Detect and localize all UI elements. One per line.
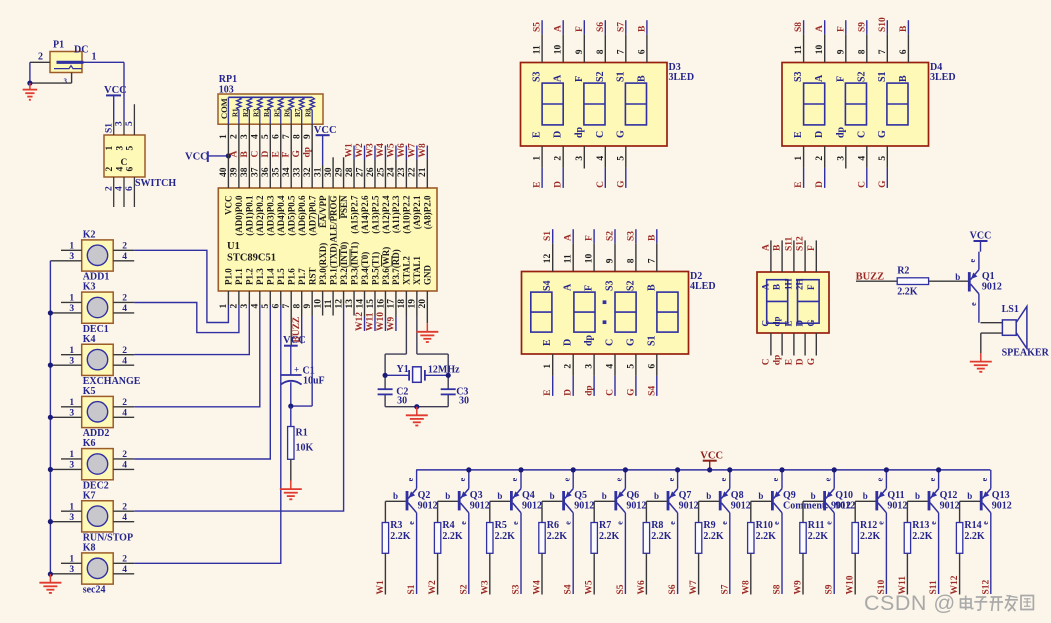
svg-text:VCC: VCC (104, 85, 127, 96)
transistor Q3 9012 (445, 470, 490, 594)
net BUZZ to R2 (856, 272, 898, 283)
svg-text:R5: R5 (273, 108, 281, 117)
svg-text:7: 7 (647, 258, 657, 263)
svg-text:9012: 9012 (679, 500, 699, 511)
resistor R5 2.2K (487, 501, 515, 594)
D2 bottom pins and nets (543, 354, 657, 396)
svg-text:E: E (783, 320, 793, 326)
wire K3 to U1 pin2 (134, 303, 239, 333)
svg-text:10: 10 (585, 253, 595, 263)
svg-text:4: 4 (122, 565, 127, 575)
wire button common bus to ground (49, 261, 51, 574)
svg-text:SWITCH: SWITCH (135, 178, 176, 189)
svg-text:F: F (807, 245, 817, 251)
svg-text:C: C (595, 131, 606, 138)
svg-text:b: b (967, 491, 972, 501)
push button K6 (DEC2) (50, 438, 134, 491)
svg-text:W2: W2 (355, 143, 365, 158)
svg-text:dp: dp (303, 147, 313, 158)
svg-text:2: 2 (564, 364, 574, 369)
svg-text:W9: W9 (794, 580, 804, 595)
svg-text:e: e (771, 477, 780, 481)
svg-text:U1: U1 (227, 241, 240, 252)
svg-text:2: 2 (105, 167, 115, 172)
svg-text:10: 10 (815, 44, 825, 54)
svg-text:E: E (543, 390, 553, 396)
junction (27, 81, 32, 86)
svg-text:2.2K: 2.2K (964, 531, 985, 542)
svg-text:F: F (836, 26, 846, 32)
svg-text:5: 5 (125, 121, 135, 126)
resistor R1 10K (288, 406, 314, 480)
U1 bottom pin numbers (219, 299, 428, 309)
svg-text:R2: R2 (897, 265, 909, 276)
svg-text:6: 6 (125, 186, 135, 191)
svg-text:(A11)P2.3: (A11)P2.3 (391, 195, 401, 233)
svg-text:9: 9 (606, 258, 616, 263)
svg-text:2.2K: 2.2K (651, 531, 672, 542)
svg-text:EA/VPP: EA/VPP (318, 195, 328, 228)
svg-text:2.2K: 2.2K (756, 531, 777, 542)
svg-text:P1.5: P1.5 (276, 268, 286, 285)
svg-text:K2: K2 (83, 230, 96, 241)
display DS1 (2LED) (757, 272, 829, 333)
svg-text:1: 1 (533, 156, 543, 161)
svg-text:3LED: 3LED (669, 72, 695, 83)
svg-text:S7: S7 (616, 22, 626, 32)
svg-text:P3.5(T1): P3.5(T1) (370, 252, 380, 285)
ground (23, 83, 38, 100)
svg-text:e: e (719, 477, 728, 481)
svg-text:12: 12 (543, 253, 553, 263)
svg-text:P3.1(TXD): P3.1(TXD) (328, 243, 338, 285)
svg-text:W3: W3 (480, 580, 490, 595)
transistor Q12 9012 (915, 470, 960, 594)
junction (226, 153, 231, 158)
svg-text:Q4: Q4 (522, 490, 535, 501)
net W11 (898, 576, 908, 595)
net S8 (773, 584, 783, 594)
net S9 (825, 584, 835, 594)
svg-text:S2: S2 (459, 584, 469, 594)
svg-text:W10: W10 (376, 312, 386, 331)
svg-text:A: A (760, 283, 770, 290)
svg-text:30: 30 (397, 396, 407, 407)
svg-text:dp: dp (574, 126, 585, 138)
capacitor C2 30 (378, 387, 409, 407)
svg-text:e: e (823, 477, 832, 481)
svg-text:S7: S7 (720, 584, 730, 594)
svg-text:e: e (928, 477, 937, 481)
svg-text:4: 4 (122, 252, 127, 262)
net BUZZ at U1 pin8 (292, 291, 302, 344)
svg-text:Q9: Q9 (783, 490, 796, 501)
capacitor C1 10uF (281, 364, 325, 406)
svg-text:b: b (393, 491, 398, 501)
ground (406, 407, 428, 426)
net W9 (794, 580, 804, 595)
svg-text:e: e (929, 521, 938, 525)
junction (832, 467, 837, 472)
svg-text:A: A (564, 234, 574, 241)
resistor R4 2.2K (434, 501, 463, 594)
svg-text:S5: S5 (533, 22, 543, 32)
svg-text:5: 5 (126, 146, 136, 151)
junction (936, 467, 941, 472)
net S5 (616, 584, 626, 594)
crystal Y1 12MHz (385, 364, 460, 383)
transistor Q11 9012 (863, 470, 908, 594)
svg-text:e: e (667, 477, 676, 481)
svg-text:9: 9 (836, 49, 846, 54)
svg-text:W6: W6 (637, 580, 647, 595)
svg-text:e: e (772, 521, 781, 525)
svg-text:G: G (615, 130, 626, 138)
svg-text:P1.1: P1.1 (234, 268, 244, 285)
svg-text:S4: S4 (564, 584, 574, 594)
svg-text:S1: S1 (646, 335, 657, 346)
svg-text:LS1: LS1 (1002, 304, 1019, 315)
svg-text:D: D (815, 181, 825, 188)
power VCC (104, 85, 127, 120)
DS1 bottom pins and nets (761, 333, 816, 365)
svg-text:D: D (564, 389, 574, 396)
svg-text:dp: dp (772, 316, 782, 326)
svg-text:C: C (606, 389, 616, 396)
svg-text:4: 4 (606, 364, 616, 369)
svg-text:W12: W12 (355, 312, 365, 331)
svg-text:2: 2 (122, 502, 127, 512)
svg-text:S1: S1 (615, 71, 626, 82)
net W2 (428, 580, 438, 595)
D3 top pins and nets (533, 20, 648, 62)
svg-text:S4: S4 (542, 280, 553, 291)
svg-text:S3: S3 (626, 231, 636, 241)
junction (48, 572, 53, 577)
svg-text:1: 1 (543, 364, 553, 369)
net W1 (376, 580, 386, 595)
junction (414, 404, 419, 409)
push button K2 (ADD1) (50, 230, 134, 283)
svg-text:F: F (575, 26, 585, 32)
resistor R12 2.2K (852, 501, 881, 594)
transistor Q6 9012 (602, 470, 647, 594)
svg-text:1: 1 (92, 52, 97, 63)
svg-text:Q7: Q7 (679, 490, 692, 501)
svg-text:F: F (585, 235, 595, 241)
svg-text:sec24: sec24 (83, 585, 106, 596)
svg-text:(A14)P2.6: (A14)P2.6 (360, 195, 370, 234)
svg-text:3: 3 (69, 252, 74, 262)
svg-text:9012: 9012 (982, 282, 1002, 293)
svg-text:S6: S6 (668, 584, 678, 594)
junction (466, 467, 471, 472)
svg-text:G: G (292, 150, 302, 158)
svg-text:R1: R1 (296, 428, 308, 439)
svg-text:C: C (760, 320, 770, 327)
svg-text:9012: 9012 (626, 500, 646, 511)
svg-text:b: b (706, 491, 711, 501)
svg-text:10: 10 (554, 44, 564, 54)
wire speaker to ground (981, 333, 1003, 353)
svg-text:2: 2 (122, 346, 127, 356)
junction (48, 415, 53, 420)
svg-text:3: 3 (69, 304, 74, 314)
svg-text:1: 1 (69, 242, 74, 252)
net S7 (720, 584, 730, 594)
svg-text:W2: W2 (428, 580, 438, 595)
svg-text:(A9)P2.1: (A9)P2.1 (412, 195, 422, 229)
svg-text:A: A (814, 74, 825, 82)
svg-text:30: 30 (459, 396, 469, 407)
svg-text:3: 3 (69, 356, 74, 366)
svg-text:e: e (980, 477, 989, 481)
ground (970, 353, 992, 372)
svg-text:2: 2 (38, 52, 43, 63)
svg-text:dp: dp (773, 355, 783, 366)
svg-text:P3.0(RXD): P3.0(RXD) (318, 243, 328, 285)
svg-text:E: E (533, 182, 543, 188)
net S4 (564, 584, 574, 594)
svg-text:e: e (668, 521, 677, 525)
svg-text:9012: 9012 (574, 500, 594, 511)
svg-text:2.2K: 2.2K (703, 531, 724, 542)
svg-text:3: 3 (69, 461, 74, 471)
svg-text:b: b (863, 491, 868, 501)
junction (48, 467, 53, 472)
svg-text:5: 5 (616, 156, 626, 161)
svg-text:3: 3 (836, 156, 846, 161)
svg-text:C: C (761, 358, 771, 365)
svg-text:(AD5)P0.5: (AD5)P0.5 (287, 195, 297, 236)
svg-text:2.2K: 2.2K (495, 531, 515, 542)
svg-text:Q12: Q12 (940, 490, 958, 501)
wire XTAL loop (385, 316, 448, 407)
watermark (864, 591, 1033, 615)
svg-text:S8: S8 (773, 584, 783, 594)
power VCC (driver rail) (700, 450, 723, 470)
junction (383, 373, 388, 378)
svg-text:F: F (282, 152, 292, 158)
svg-text:A: A (553, 74, 564, 82)
svg-text:B: B (637, 25, 647, 32)
svg-text:4: 4 (857, 156, 867, 161)
svg-text:S9: S9 (857, 22, 867, 32)
transistor Q7 9012 (654, 470, 699, 594)
svg-text:(A12)P2.4: (A12)P2.4 (381, 195, 391, 234)
svg-text:P1: P1 (53, 40, 64, 51)
svg-text:R10: R10 (756, 520, 773, 531)
resistor R8 2.2K (643, 501, 672, 594)
svg-text:(AD1)P0.1: (AD1)P0.1 (245, 195, 255, 236)
resistor R13 2.2K (904, 501, 933, 594)
svg-text:P3.4(T0): P3.4(T0) (360, 252, 370, 285)
svg-text:K4: K4 (83, 334, 96, 345)
svg-text:A: A (761, 244, 771, 251)
switch S1 (SWITCH) (104, 104, 176, 207)
svg-text:A: A (554, 25, 564, 32)
svg-text:XTAL1: XTAL1 (412, 256, 422, 285)
svg-text:S6: S6 (596, 22, 606, 32)
svg-text:A: A (229, 151, 239, 158)
svg-text:K6: K6 (83, 438, 96, 449)
wire K5 to U1 pin4 (134, 305, 260, 407)
svg-text:R13: R13 (912, 520, 929, 531)
svg-text:F: F (806, 284, 816, 290)
svg-text:VCC: VCC (224, 196, 234, 216)
svg-text:P3.2(INT0): P3.2(INT0) (339, 242, 349, 285)
svg-text:3: 3 (575, 156, 585, 161)
net W6 (637, 580, 647, 595)
svg-text:W7: W7 (689, 580, 699, 595)
svg-text:G: G (806, 319, 816, 326)
svg-text:e: e (824, 521, 833, 525)
svg-text:(AD4)P0.4: (AD4)P0.4 (276, 195, 286, 236)
svg-text:DC: DC (74, 45, 88, 56)
junction (779, 467, 784, 472)
ground (39, 574, 61, 593)
resistor R10 2.2K (748, 501, 777, 594)
svg-text:S12: S12 (981, 579, 991, 594)
svg-text:(AD0)P0.0: (AD0)P0.0 (234, 195, 244, 236)
capacitor C3 30 (441, 387, 469, 407)
svg-text:CSDN @: CSDN @ (864, 591, 956, 615)
svg-text:2: 2 (122, 555, 127, 565)
svg-text:9012: 9012 (470, 500, 490, 511)
D4 bottom pins and nets (794, 146, 888, 188)
svg-text:R6: R6 (547, 520, 559, 531)
svg-text:(AD3)P0.3: (AD3)P0.3 (266, 195, 276, 236)
svg-text:1: 1 (69, 555, 74, 565)
svg-text:F: F (835, 76, 846, 82)
svg-text:G: G (626, 388, 636, 396)
push button K5 (ADD2) (50, 386, 134, 439)
U1 top pin wires to RP1 (228, 124, 312, 188)
svg-text:S2: S2 (856, 71, 867, 82)
svg-text:6: 6 (647, 364, 657, 369)
svg-text:1: 1 (69, 398, 74, 408)
net W4 (533, 580, 543, 595)
svg-text:S8: S8 (794, 22, 804, 32)
svg-text:2.2K: 2.2K (860, 531, 881, 542)
svg-text:3: 3 (115, 121, 125, 126)
svg-text:e: e (406, 477, 415, 481)
svg-text:11: 11 (564, 254, 574, 263)
svg-text:2.2K: 2.2K (547, 531, 568, 542)
svg-text:9012: 9012 (992, 500, 1012, 511)
net W8 (741, 580, 751, 595)
svg-text:(A15)P2.7: (A15)P2.7 (349, 195, 359, 234)
svg-text:VCC: VCC (970, 231, 992, 242)
U1 top pin numbers (219, 167, 428, 177)
svg-text:C: C (856, 131, 867, 138)
svg-text:S12: S12 (796, 236, 806, 251)
U1 pin30 pin29 stubs (333, 157, 343, 188)
svg-text:Q1: Q1 (982, 271, 995, 282)
svg-text:8: 8 (626, 258, 636, 263)
display D2 (522, 271, 716, 354)
junction (727, 467, 732, 472)
svg-text:S1: S1 (407, 584, 417, 594)
svg-text:S5: S5 (616, 584, 626, 594)
net S2 (459, 584, 469, 594)
svg-text:2.2K: 2.2K (912, 531, 933, 542)
svg-text:3: 3 (115, 146, 125, 151)
svg-text:F: F (584, 285, 595, 291)
svg-text:9012: 9012 (835, 500, 855, 511)
svg-text:e: e (615, 477, 624, 481)
svg-text:9012: 9012 (522, 500, 542, 511)
svg-text:4: 4 (122, 304, 127, 314)
svg-text:2.2K: 2.2K (390, 531, 411, 542)
svg-text:P3.7(RD): P3.7(RD) (391, 249, 401, 285)
svg-text:W6: W6 (397, 143, 407, 158)
svg-text:P1.6: P1.6 (287, 268, 297, 285)
svg-text:PSEN: PSEN (339, 195, 349, 219)
svg-text:G: G (877, 130, 888, 138)
svg-text:4: 4 (122, 409, 127, 419)
svg-text:12MHz: 12MHz (428, 365, 460, 376)
svg-text:SPEAKER: SPEAKER (1002, 348, 1050, 359)
svg-text:G: G (807, 357, 817, 365)
svg-text:W10: W10 (846, 575, 856, 594)
transistor Q5 9012 (550, 470, 595, 594)
connector P1 (DC power jack) (38, 40, 97, 86)
svg-text:W5: W5 (585, 580, 595, 595)
svg-text:S9: S9 (825, 584, 835, 594)
transistor Q1 9012 (955, 252, 1002, 323)
net W7 (689, 580, 699, 595)
svg-text:(A8)P2.0: (A8)P2.0 (423, 195, 433, 229)
svg-text:R6: R6 (284, 108, 292, 117)
svg-text:S3: S3 (793, 71, 804, 82)
svg-text:R3: R3 (390, 520, 402, 531)
svg-text:dp: dp (835, 126, 846, 138)
resistor R3 2.2K (382, 501, 411, 594)
svg-text:B: B (899, 25, 909, 32)
svg-text:6: 6 (899, 49, 909, 54)
svg-text:B: B (636, 75, 647, 82)
junction (48, 363, 53, 368)
svg-text:Q11: Q11 (887, 490, 904, 501)
svg-text:R9: R9 (703, 520, 715, 531)
svg-text:5: 5 (626, 364, 636, 369)
transistor Q8 9012 (706, 470, 751, 594)
svg-text:3: 3 (69, 513, 74, 523)
svg-text:S1: S1 (877, 71, 888, 82)
svg-text:2: 2 (122, 242, 127, 252)
svg-text:2: 2 (122, 398, 127, 408)
svg-text:W8: W8 (418, 143, 428, 158)
svg-text:2: 2 (815, 156, 825, 161)
svg-text:B: B (647, 234, 657, 241)
nets W1-W8 at U1 pins 28-21 (345, 143, 428, 188)
wire VCC rail (416, 469, 990, 471)
net W10 (846, 575, 856, 594)
junction (884, 467, 889, 472)
resistor R9 2.2K (695, 501, 724, 594)
svg-text:VCC: VCC (283, 335, 306, 346)
svg-text:4: 4 (596, 156, 606, 161)
transistor Q2 9012 (393, 470, 438, 594)
svg-text:Y1: Y1 (397, 364, 409, 375)
push button K8 (sec24) (50, 543, 134, 596)
svg-text:e: e (511, 521, 520, 525)
svg-text:E: E (793, 131, 804, 138)
svg-text:3: 3 (64, 78, 68, 86)
nets W12-W9 at U1 pins 14-17 (355, 291, 396, 331)
svg-text:A: A (815, 25, 825, 32)
